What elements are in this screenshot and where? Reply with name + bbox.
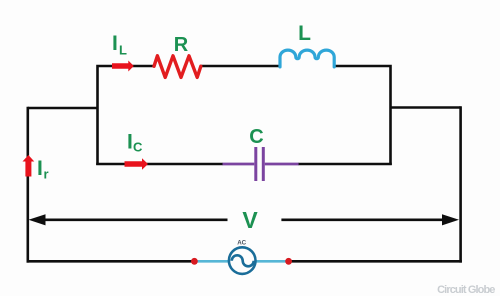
svg-text:I: I (37, 157, 43, 180)
voltage arrowhead left (29, 214, 46, 225)
svg-text:r: r (44, 167, 49, 182)
capacitor C plate 1 (254, 147, 257, 181)
svg-text:AC: AC (237, 240, 246, 247)
svg-text:I: I (112, 32, 118, 55)
node junction dot left (191, 258, 198, 265)
node junction dot right (285, 258, 292, 265)
svg-text:Circuit Globe: Circuit Globe (437, 284, 495, 296)
wire: AC source right lead (light blue) (255, 260, 289, 263)
capacitor C lead left (purple) (223, 163, 255, 166)
svg-text:C: C (249, 126, 263, 148)
wire: left tie wire (outer-left to inner-left) (28, 107, 98, 110)
voltage arrow V left segment (42, 219, 228, 222)
svg-text:R: R (174, 34, 189, 56)
current arrow IC (125, 158, 149, 169)
wire: top branch left segment (inner-left corner to resistor) (98, 66, 155, 165)
svg-text:L: L (298, 22, 311, 45)
wire: capacitor branch right black segment (298, 163, 392, 166)
resistor R (154, 56, 201, 78)
current arrow Ir (23, 155, 35, 177)
wire: outer-right vertical (459, 106, 462, 262)
svg-text:L: L (119, 43, 127, 58)
wire: bottom right black segment (289, 260, 462, 263)
capacitor C lead right (purple) (265, 163, 299, 166)
wire: top branch between resistor and inductor (201, 65, 281, 68)
wire: AC source left lead (light blue) (194, 260, 229, 263)
wire: capacitor branch left black segment (96, 163, 223, 166)
current arrow IL (112, 61, 134, 72)
capacitor C plate 2 (262, 147, 265, 181)
wire: top branch right segment + inner-right vertical (335, 66, 391, 165)
voltage arrowhead right (442, 214, 459, 225)
AC source sine wave (232, 255, 254, 266)
wire: right tie wire (inner-right to outer-right) (391, 106, 461, 109)
svg-text:V: V (242, 207, 258, 233)
inductor L (280, 50, 334, 67)
wire: outer-left vertical (26, 107, 29, 263)
svg-text:C: C (133, 140, 143, 155)
wire: bottom left black segment (27, 260, 195, 263)
AC source circle (229, 247, 256, 274)
voltage arrow V right segment (281, 219, 446, 222)
svg-text:I: I (127, 131, 133, 154)
